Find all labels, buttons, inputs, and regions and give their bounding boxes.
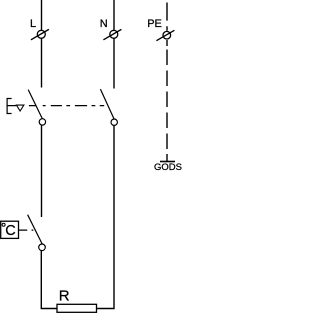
thermostat switch contact circle	[39, 244, 46, 251]
switch S1 pole L blade	[28, 90, 42, 119]
wire L bottom	[41, 251, 57, 309]
ground bar	[160, 161, 175, 163]
wire L top	[41, 0, 43, 88]
svg-text:PE: PE	[147, 18, 162, 30]
terminal L	[31, 29, 49, 39]
svg-text:GODS: GODS	[154, 162, 182, 173]
resistor R body	[57, 304, 97, 312]
actuator triangle	[16, 105, 24, 111]
wire PE dashed bottom	[166, 40, 168, 162]
actuator bracket	[7, 99, 16, 114]
thermostat label degC	[2, 223, 16, 239]
svg-text:L: L	[30, 18, 36, 30]
wire L middle	[41, 125, 43, 217]
thermostat box	[1, 221, 19, 238]
mechanical link dash-dot	[29, 105, 104, 107]
thermostat link dash-dot	[19, 229, 33, 231]
switch S1 pole N contact circle	[111, 119, 117, 125]
wire N top	[113, 0, 115, 89]
thermostat switch blade	[28, 215, 43, 244]
svg-text:R: R	[59, 288, 70, 305]
svg-text:C: C	[5, 223, 15, 239]
switch S1 pole L contact circle	[39, 119, 45, 125]
wire PE dashed top	[166, 3, 168, 31]
svg-text:N: N	[100, 18, 108, 30]
terminal N	[103, 29, 121, 39]
terminal PE	[156, 30, 174, 40]
wire resistor to right	[97, 126, 115, 309]
switch S1 pole N blade	[100, 89, 114, 119]
